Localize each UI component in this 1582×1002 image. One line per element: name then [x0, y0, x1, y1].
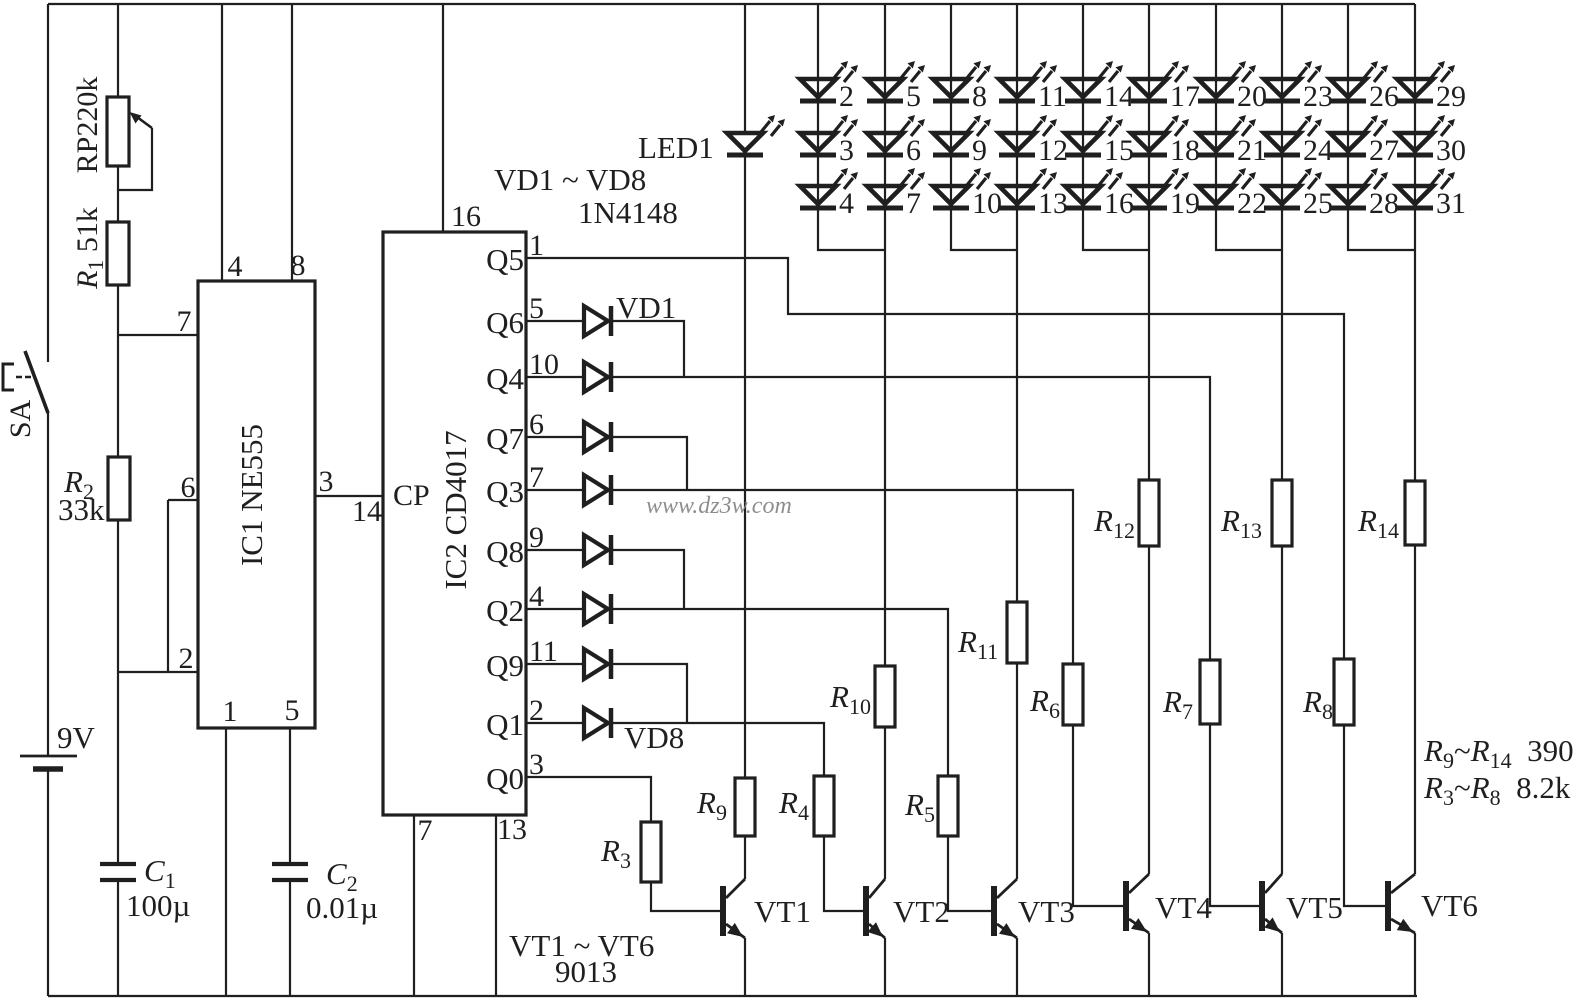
wire LED1 to R9 — [744, 156, 746, 778]
svg-text:VT6: VT6 — [1421, 888, 1478, 923]
wire R8 to VT6 base — [1344, 725, 1388, 906]
svg-text:Q6: Q6 — [486, 305, 524, 340]
svg-text:LED1: LED1 — [638, 130, 714, 165]
LED 24 — [1264, 133, 1300, 151]
wire NE555 pin2 — [118, 671, 198, 673]
svg-text:9V: 9V — [57, 720, 96, 755]
svg-text:5: 5 — [285, 694, 300, 727]
svg-text:13: 13 — [1038, 187, 1068, 220]
wire NE555 pin6 stub — [168, 499, 198, 501]
resistor R7 — [1200, 660, 1220, 724]
svg-text:3: 3 — [839, 134, 854, 167]
diode VD8 — [584, 708, 608, 738]
svg-text:www.dz3w.com: www.dz3w.com — [646, 493, 792, 519]
svg-text:Q1: Q1 — [486, 707, 524, 742]
wire C1 to ground rail — [117, 880, 119, 996]
wire NE555 pin1 to ground — [225, 728, 227, 996]
svg-text:12: 12 — [1038, 134, 1068, 167]
wire NE555 pin3 to CD4017 CP — [315, 495, 383, 497]
LED 9 — [933, 133, 969, 151]
svg-text:14: 14 — [1104, 80, 1134, 113]
wire R3 to VT1 base — [651, 882, 723, 911]
wire left rail lower — [47, 770, 49, 996]
svg-text:4: 4 — [228, 250, 243, 283]
resistor R10 — [875, 666, 895, 727]
wire LED column 7 from top rail — [1216, 4, 1282, 250]
svg-text:VT5: VT5 — [1286, 890, 1343, 925]
transistor VT1 — [720, 886, 726, 936]
svg-text:23: 23 — [1303, 80, 1333, 113]
diode VD5 — [584, 535, 608, 565]
wire R11 to VT3 collector — [1016, 663, 1018, 879]
wire VT6 emitter to ground — [1414, 933, 1416, 996]
svg-text:21: 21 — [1237, 134, 1267, 167]
svg-text:CP: CP — [393, 479, 430, 512]
svg-text:18: 18 — [1170, 134, 1200, 167]
svg-text:8: 8 — [972, 80, 987, 113]
wire bottom ground rail — [48, 995, 1417, 997]
LED 30 — [1397, 133, 1433, 151]
potentiometer RP 220k — [107, 97, 129, 166]
wire NE555 pin7 from R1/R2 node — [118, 334, 198, 336]
LED 25 — [1264, 186, 1300, 204]
diode VD4 — [584, 475, 608, 505]
wire LED column 1 from top rail — [818, 4, 885, 250]
wire VT2 emitter to ground — [884, 938, 886, 996]
diode VD2 — [584, 362, 608, 392]
svg-text:100µ: 100µ — [126, 888, 190, 923]
wire R9 to VT1 collector — [744, 836, 746, 879]
resistor R11 — [1007, 602, 1027, 663]
LED 17 — [1131, 79, 1167, 97]
LED LED1 — [727, 133, 763, 151]
svg-text:11: 11 — [1038, 80, 1067, 113]
wire R7 to VT5 base — [1210, 724, 1262, 906]
svg-text:Q5: Q5 — [486, 242, 524, 277]
wire R1 to R2 — [117, 285, 119, 457]
wire VD4/VD3 merged to R6 — [612, 490, 1073, 664]
LED 23 — [1264, 79, 1300, 97]
svg-text:VT3: VT3 — [1018, 894, 1075, 929]
IC IC2 CD4017 decade counter — [383, 232, 526, 815]
transistor VT3 — [991, 886, 997, 936]
resistor R9 — [735, 778, 755, 836]
wire LED column 3 from top rail — [951, 4, 1017, 250]
wire Q9 output — [526, 663, 584, 665]
IC IC1 NE555 timer — [198, 281, 315, 728]
resistor R2 33k — [108, 457, 130, 520]
wire R2 to C1/pin2 node — [117, 520, 119, 864]
LED 2 — [800, 79, 836, 97]
svg-text:9: 9 — [972, 134, 987, 167]
transistor VT5 — [1259, 881, 1265, 931]
svg-text:22: 22 — [1237, 187, 1267, 220]
svg-text:0.01µ: 0.01µ — [306, 890, 378, 925]
svg-text:30: 30 — [1436, 134, 1466, 167]
resistor R5 — [938, 776, 958, 836]
LED 15 — [1065, 133, 1101, 151]
LED 6 — [867, 133, 903, 151]
LED 3 — [800, 133, 836, 151]
LED 10 — [933, 186, 969, 204]
wire CD4017 pin16 from top rail — [442, 4, 444, 232]
svg-text:Q2: Q2 — [486, 593, 524, 628]
wire VD1 to Q4 line — [612, 321, 684, 377]
diode VD7 — [584, 649, 608, 679]
wire left rail upper — [47, 4, 49, 362]
wire Q2 output — [526, 608, 584, 610]
wire VD2/VD1 merged to R7 — [612, 377, 1210, 660]
resistor R12 — [1139, 480, 1159, 546]
wire VT3 emitter to ground — [1016, 938, 1018, 996]
wire RP to R1 — [117, 166, 119, 222]
wire LED column 2 to R10 — [884, 4, 886, 666]
wire C2 to ground rail — [289, 880, 291, 996]
svg-text:Q4: Q4 — [486, 361, 524, 396]
LED 16 — [1065, 186, 1101, 204]
svg-text:7: 7 — [177, 305, 192, 338]
LED 8 — [933, 79, 969, 97]
wire Q7 output — [526, 436, 584, 438]
wire Q6 output — [526, 320, 584, 322]
wire LED column 9 from top rail — [1348, 4, 1415, 250]
wire Q0 output to R3 — [526, 777, 651, 822]
svg-text:3: 3 — [319, 465, 334, 498]
wire NE555 pin5 to C2 — [289, 728, 291, 864]
svg-text:5: 5 — [906, 80, 921, 113]
wire VT5 emitter to ground — [1281, 933, 1283, 996]
LED 5 — [867, 79, 903, 97]
wire NE555 pin8 from top rail — [291, 4, 293, 281]
wire top supply rail — [48, 3, 1415, 5]
svg-text:14: 14 — [352, 495, 382, 528]
LED 26 — [1330, 79, 1366, 97]
wire VD6/VD5 merged to R5 — [612, 609, 948, 776]
svg-text:RP220k: RP220k — [71, 77, 104, 174]
LED 21 — [1198, 133, 1234, 151]
svg-text:Q9: Q9 — [486, 648, 524, 683]
wire VD5 to Q2 line — [612, 550, 684, 609]
LED 22 — [1198, 186, 1234, 204]
svg-text:R1 51k: R1 51k — [71, 207, 108, 290]
wire LED column 5 from top rail — [1083, 4, 1149, 250]
wire CD4017 pin7 to ground — [413, 815, 415, 996]
svg-text:28: 28 — [1369, 187, 1399, 220]
resistor R4 — [814, 776, 834, 836]
diode VD3 — [584, 422, 608, 452]
wire LED1 branch from top rail — [744, 4, 746, 133]
LED 13 — [999, 186, 1035, 204]
resistor R13 — [1272, 480, 1292, 546]
wire VD3 to Q3 line — [612, 437, 687, 490]
wire Q5 output to R8 — [526, 258, 1344, 659]
wire Q4 output — [526, 376, 584, 378]
svg-text:9013: 9013 — [555, 954, 617, 989]
diode VD6 — [584, 594, 608, 624]
svg-text:IC2 CD4017: IC2 CD4017 — [438, 430, 473, 589]
svg-text:VD8: VD8 — [624, 720, 684, 755]
transistor VT4 — [1123, 881, 1129, 931]
LED 4 — [800, 186, 836, 204]
svg-text:10: 10 — [972, 187, 1002, 220]
resistor R1 51k — [107, 222, 129, 285]
svg-text:1N4148: 1N4148 — [578, 195, 678, 230]
svg-text:7: 7 — [906, 187, 921, 220]
battery 9V — [20, 755, 77, 758]
svg-text:Q8: Q8 — [486, 534, 524, 569]
svg-text:26: 26 — [1369, 80, 1399, 113]
svg-text:31: 31 — [1436, 187, 1466, 220]
LED 31 — [1397, 186, 1433, 204]
resistor R3 — [641, 822, 661, 882]
svg-text:2: 2 — [179, 642, 194, 675]
LED 14 — [1065, 79, 1101, 97]
svg-text:Q7: Q7 — [486, 421, 524, 456]
wire R4 to VT2 base — [824, 836, 866, 911]
svg-text:19: 19 — [1170, 187, 1200, 220]
wire RP wiper to lower terminal — [118, 128, 152, 190]
svg-text:20: 20 — [1237, 80, 1267, 113]
svg-text:2: 2 — [839, 80, 854, 113]
svg-text:13: 13 — [497, 813, 527, 846]
LED 20 — [1198, 79, 1234, 97]
LED 29 — [1397, 79, 1433, 97]
svg-text:7: 7 — [418, 814, 433, 847]
resistor R14 — [1405, 481, 1425, 545]
wire VT1 emitter to ground — [744, 938, 746, 996]
svg-text:15: 15 — [1104, 134, 1134, 167]
wire RP/R1 branch from top rail — [117, 4, 119, 97]
wire R14 to VT6 collector — [1414, 545, 1416, 874]
wire R10 to VT2 collector — [884, 727, 886, 879]
svg-text:6: 6 — [181, 471, 196, 504]
wire VT4 emitter to ground — [1148, 933, 1150, 996]
svg-text:25: 25 — [1303, 187, 1333, 220]
LED 19 — [1131, 186, 1167, 204]
diode VD1 — [584, 306, 608, 336]
svg-text:1: 1 — [223, 695, 238, 728]
svg-text:4: 4 — [839, 187, 854, 220]
LED 18 — [1131, 133, 1167, 151]
wire LED column 8 to R13 — [1281, 4, 1283, 480]
svg-text:33k: 33k — [58, 492, 105, 527]
svg-text:16: 16 — [451, 200, 481, 233]
transistor VT6 — [1385, 881, 1391, 931]
wire R6 to VT4 base — [1073, 725, 1126, 906]
LED 28 — [1330, 186, 1366, 204]
wire LED column 6 to R12 — [1148, 4, 1150, 480]
resistor R8 — [1334, 659, 1354, 725]
wire Q1 output — [526, 722, 584, 724]
transistor VT2 — [863, 886, 869, 936]
svg-text:16: 16 — [1104, 187, 1134, 220]
LED 11 — [999, 79, 1035, 97]
wire R13 to VT5 collector — [1281, 546, 1283, 874]
wire R5 to VT3 base — [948, 836, 994, 911]
LED 7 — [867, 186, 903, 204]
svg-text:VD1 ~ VD8: VD1 ~ VD8 — [494, 162, 646, 197]
svg-text:8: 8 — [291, 249, 306, 282]
svg-text:29: 29 — [1436, 80, 1466, 113]
svg-text:Q0: Q0 — [486, 761, 524, 796]
capacitor C2 0.01u — [272, 862, 308, 866]
svg-text:24: 24 — [1303, 134, 1333, 167]
svg-text:VT1: VT1 — [754, 894, 811, 929]
svg-text:17: 17 — [1170, 80, 1200, 113]
wire CD4017 pin13 to ground — [495, 815, 497, 996]
capacitor C1 100u — [100, 862, 136, 866]
wire Q8 output — [526, 549, 584, 551]
wire NE555 pin4 from top rail — [221, 4, 223, 281]
wire LED column 10 to R14 — [1414, 4, 1416, 481]
wire pin6 to pin2 — [167, 500, 169, 672]
wire VD7 to Q1 line — [612, 664, 687, 723]
svg-text:SA: SA — [4, 399, 37, 438]
LED 12 — [999, 133, 1035, 151]
wire Q3 output — [526, 489, 584, 491]
wire LED column 4 to R11 — [1016, 4, 1018, 602]
wire R12 to VT4 collector — [1148, 546, 1150, 874]
svg-text:27: 27 — [1369, 134, 1399, 167]
svg-text:IC1 NE555: IC1 NE555 — [234, 424, 269, 566]
svg-text:6: 6 — [906, 134, 921, 167]
switch SA — [25, 351, 48, 413]
svg-text:VT2: VT2 — [893, 894, 950, 929]
LED 27 — [1330, 133, 1366, 151]
svg-text:Q3: Q3 — [486, 474, 524, 509]
wire left rail middle — [47, 412, 49, 756]
resistor R6 — [1063, 664, 1083, 725]
wire VD8/VD7 merged to R4 — [612, 723, 824, 776]
svg-text:VT4: VT4 — [1155, 890, 1212, 925]
svg-text:VD1: VD1 — [616, 290, 676, 325]
